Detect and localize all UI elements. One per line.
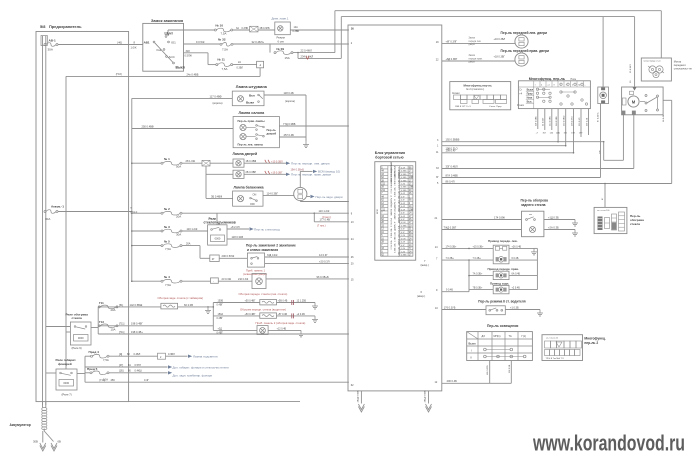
svg-text:0.3ЛБ: 0.3ЛБ [242,27,249,30]
svg-text:3А: 3А [236,27,239,30]
svg-text:№ 1: № 1 [164,157,170,161]
svg-text:ДВЕРЬ 7Г: ДВЕРЬ 7Г [395,220,397,230]
svg-text:+20 0.3Л: +20 0.3Л [319,260,330,264]
svg-text:0.3ВБ: 0.3ВБ [401,187,407,189]
svg-text:№ 2: № 2 [164,207,170,211]
svg-text:Аккум.-1: Аккум.-1 [51,204,64,208]
svg-text:Выс.: Выс. [527,100,533,103]
svg-text:0.5Ж: 0.5Ж [401,238,406,240]
svg-text:и ключи зажигания: и ключи зажигания [247,248,278,252]
svg-text:ДВЕРЬ 7Г: ДВЕРЬ 7Г [395,167,397,177]
svg-text:(коричн): (коричн) [285,99,295,103]
svg-text:0.5Ж 21А: 0.5Ж 21А [398,225,401,234]
svg-text:Замок: Замок [469,38,477,40]
svg-text:6 сек: 6 сек [278,39,285,43]
svg-text:7А 0.3Б+: 7А 0.3Б+ [473,273,483,276]
svg-text:114 0.3БГ: 114 0.3БГ [267,191,279,195]
svg-text:176 0.3УБ: 176 0.3УБ [444,306,456,309]
svg-text:98 0.4Б: 98 0.4Б [663,114,665,122]
svg-text:Г13: Г13 [99,320,104,324]
svg-text:15А: 15А [285,56,290,60]
svg-text:[1Б]: [1Б] [119,370,124,373]
svg-text:1.2Б: 1.2Б [401,235,406,237]
svg-text:Пред 5: Пред 5 [87,367,98,371]
svg-text:передн прав.: передн прав. [469,58,483,60]
svg-text:9 0.5Ж: 9 0.5Ж [196,40,205,44]
svg-text:[Г11]: [Г11] [119,331,125,334]
svg-text:ЗВ1Д 0.5ВБ: ЗВ1Д 0.5ВБ [425,390,427,403]
svg-text:33Г 0.4БЛ: 33Г 0.4БЛ [446,164,458,168]
svg-text:0.4Л: 0.4Л [401,167,406,169]
svg-text:0.3ВБ: 0.3ВБ [401,177,407,179]
svg-text:стекла: стекла [72,316,83,320]
svg-text:86 0.4Л: 86 0.4Л [446,179,455,183]
svg-text:+2 0.4Б: +2 0.4Б [512,287,521,290]
svg-text:Лампа салона: Лампа салона [239,111,266,115]
svg-text:0000: 0000 [215,236,221,240]
svg-text:№ 4: № 4 [164,275,170,279]
svg-text:6В: 6В [58,440,61,444]
svg-text:96 0.3В+Б: 96 0.3В+Б [317,275,329,279]
svg-text:1.2Б: 1.2Б [401,248,406,250]
svg-text:ВСМ: ВСМ [377,209,379,214]
svg-text:+2 0.4Б: +2 0.4Б [297,313,306,316]
svg-text:+16 0.3БЛ: +16 0.3БЛ [494,38,506,41]
svg-text:7,5А: 7,5А [165,247,171,251]
svg-text:250 0.4ВФ: 250 0.4ВФ [142,124,154,128]
svg-text:198 0.4В+: 198 0.4В+ [131,330,143,334]
svg-text:19А 0.3В+Б: 19А 0.3В+Б [291,168,305,171]
svg-text:двери: двери [469,44,476,46]
svg-text:0.3ВБ 12А: 0.3ВБ 12А [394,232,397,242]
svg-text:передн лев.: передн лев. [469,41,482,43]
svg-text:№ 10: № 10 [216,24,224,28]
svg-text:АВ1: АВ1 [144,41,150,45]
svg-text:ЗВ2Д 0.5ВБ: ЗВ2Д 0.5ВБ [358,390,360,403]
svg-text:7,5А: 7,5А [103,358,109,362]
svg-text:эл-т об-ва 12: эл-т об-ва 12 [546,338,559,340]
svg-text:+50 0.4ВГ: +50 0.4ВГ [245,313,257,316]
svg-text:Пер-ль: Пер-ль [267,128,277,132]
svg-text:МН(1): МН(1) [494,335,501,338]
svg-text:(Реле 9): (Реле 9) [72,346,82,350]
svg-text:1М8 8 1УТ 9 +3: 1М8 8 1УТ 9 +3 [455,106,471,108]
svg-text:1Б 0.4ВФ: 1Б 0.4ВФ [246,160,257,163]
svg-text:[46]: [46] [118,40,123,44]
svg-text:50А: 50А [176,165,181,169]
svg-text:OFF: OFF [250,203,255,206]
svg-text:32 0.4БЛ+: 32 0.4БЛ+ [252,40,265,44]
svg-text:Пер-ль стеклопод: Пер-ль стеклопод [254,227,280,231]
svg-text:Приб. панель 2 (обогрев задн.: Приб. панель 2 (обогрев задн. стекла) [256,321,306,325]
svg-text:Лампа подсветки: Лампа подсветки [193,355,218,359]
svg-text:77Д 0.3ВБ: 77Д 0.3ВБ [283,122,296,126]
svg-text:174 0.3Б+: 174 0.3Б+ [446,245,458,248]
svg-text:Привод передн. прав.: Привод передн. прав. [488,267,520,271]
svg-text:20А: 20А [186,243,191,246]
svg-text:31 0.5БГ: 31 0.5БГ [543,117,545,126]
svg-text:198 0.3ТО: 198 0.3ТО [571,116,573,126]
svg-text:30А: 30А [45,217,50,221]
svg-text:118 0.4Б: 118 0.4Б [284,91,294,95]
svg-text:Доп. задн. комбинир. фонари: Доп. задн. комбинир. фонари [173,373,213,377]
svg-text:0.4Л: 0.4Л [401,209,406,211]
svg-text:Низк: Низк [527,96,533,99]
svg-text:(Реле 7): (Реле 7) [62,393,72,397]
svg-text:(Г низ.): (Г низ.) [317,224,326,228]
svg-text:20А: 20А [111,308,116,312]
svg-text:Блок управления: Блок управления [375,151,405,155]
svg-text:+12 0.4Б: +12 0.4Б [277,327,287,330]
svg-text:0.3БЛ: 0.3БЛ [168,353,175,356]
svg-text:459: 459 [111,379,116,382]
svg-text:+18 0.3БГ: +18 0.3БГ [494,56,506,59]
svg-text:+1Д 0.3Б: +1Д 0.3Б [548,215,559,219]
svg-text:www.korandovod.ru: www.korandovod.ru [532,431,685,456]
svg-text:118 0.31В: 118 0.31В [232,235,244,239]
svg-text:мотор передн ст-ля: мотор передн ст-ля [644,61,661,63]
svg-text:24х 0.4ВБ: 24х 0.4ВБ [187,72,199,76]
svg-text:144 0.5ВБ: 144 0.5ВБ [550,116,552,126]
svg-text:+1 0.3Б: +1 0.3Б [510,306,519,309]
svg-text:0.3ВБ 12А: 0.3ВБ 12А [394,187,397,197]
svg-text:[4Г]: [4Г] [119,364,123,367]
svg-text:Пер-ль передн. лев. двери: Пер-ль передн. лев. двери [291,162,330,166]
svg-text:Пер-ль передней прав. двери: Пер-ль передней прав. двери [501,49,550,53]
svg-text:ДЗ: ДЗ [482,335,486,338]
svg-text:+26 0.4Б: +26 0.4Б [512,245,522,248]
svg-text:№ 5: № 5 [164,240,170,244]
svg-text:Сигнал: Сигнал [452,93,460,95]
svg-text:№ 11: № 11 [218,58,226,62]
svg-text:ЗАМОК 14Б: ЗАМОК 14Б [390,162,393,174]
svg-text:ТА: ТА [509,335,512,338]
svg-text:двери: двери [469,62,476,64]
svg-text:142 0.5ВШ: 142 0.5ВШ [130,303,143,307]
svg-text:Стекл. Прер: Стекл. Прер [489,106,502,108]
svg-text:ACC: ACC [169,55,176,59]
svg-text:7,5А: 7,5А [222,47,228,51]
svg-text:+5Г 0.4Б: +5Г 0.4Б [278,313,288,316]
svg-text:0.3ВБ: 0.3ВБ [401,255,407,257]
svg-text:Привод задн.: Привод задн. [490,281,509,285]
svg-text:Лампа дверей: Лампа дверей [233,152,258,156]
svg-text:199 0.3Л: 199 0.3Л [579,117,581,126]
svg-text:+50 0.4ВГ: +50 0.4ВГ [245,299,257,302]
svg-text:5/8: 5/8 [40,24,46,29]
svg-text:1.2Б: 1.2Б [401,183,406,185]
svg-text:(Стекл.): (Стекл.) [322,216,331,219]
svg-text:стеклоподъемников: стеклоподъемников [204,221,236,225]
svg-text:0.4БЛ: 0.4БЛ [134,353,141,356]
svg-text:30В: 30В [33,440,38,444]
svg-text:0.5Ж 21А: 0.5Ж 21А [390,218,393,227]
svg-text:2Б 0.3ВР: 2Б 0.3ВР [246,171,257,174]
svg-text:1.2Б: 1.2Б [401,251,406,253]
svg-text:Выкл: Выкл [246,101,254,105]
svg-text:Лампа багажника: Лампа багажника [234,186,264,190]
svg-text:Выкл: Выкл [469,341,476,345]
svg-text:0.3ВБ 12А: 0.3ВБ 12А [394,243,397,253]
svg-text:Приб. панель 1: Приб. панель 1 [246,268,266,272]
svg-text:Прер: Прер [527,92,534,95]
svg-text:7В 0.3Б+: 7В 0.3Б+ [473,287,483,290]
svg-text:0.4Л: 0.4Л [401,193,406,195]
svg-text:302 0.5Б: 302 0.5Б [509,364,511,373]
svg-text:7,5А: 7,5А [221,32,227,36]
svg-text:0.5ГЛ: 0.5ГЛ [135,364,142,367]
svg-text:0.4Л: 0.4Л [401,206,406,208]
svg-text:Обогрев задн. стекла (с таймер: Обогрев задн. стекла (с таймером) [158,296,204,300]
svg-text:Аккумулятор: Аккумулятор [10,423,31,427]
svg-text:Г(1): Г(1) [522,335,527,338]
svg-text:Замок зажигания: Замок зажигания [151,19,183,23]
svg-text:7,5А: 7,5А [222,67,228,71]
svg-text:0000: 0000 [63,381,69,385]
svg-text:АВ-1: АВ-1 [49,38,56,42]
svg-text:(Г16): (Г16) [116,72,122,76]
svg-text:0.5Ж 21А: 0.5Ж 21А [398,172,401,181]
svg-text:Многофункц пер-ль: Многофункц пер-ль [464,84,493,88]
svg-text:ЗАМОК 14Б: ЗАМОК 14Б [394,208,397,220]
svg-text:ВСМ (вывод 10): ВСМ (вывод 10) [318,170,340,174]
svg-text:12 0.3Г: 12 0.3Г [319,253,328,257]
svg-text:0.3ВБ: 0.3ВБ [293,30,300,33]
svg-text:199 0.4У: 199 0.4У [446,149,457,153]
svg-text:148 0.5ВБ: 148 0.5ВБ [556,116,558,126]
svg-text:22 0.4ЖЛ: 22 0.4ЖЛ [301,49,313,53]
svg-text:Вкл: Вкл [249,93,255,97]
svg-text:35Г 0.4Б: 35Г 0.4Б [586,117,588,126]
svg-text:0.4Г: 0.4Г [144,379,149,382]
svg-text:дверей: дверей [267,131,277,135]
svg-text:[Г14]: [Г14] [100,379,106,382]
svg-text:(освещение двери): (освещение двери) [243,272,267,276]
svg-text:6 0.4Б: 6 0.4Б [512,257,519,260]
svg-text:№ 3: № 3 [164,225,170,229]
svg-text:стеклоочист-ля: стеклоочист-ля [674,67,692,70]
svg-text:Г11: Г11 [99,301,104,305]
svg-text:0.4Л: 0.4Л [401,203,406,205]
svg-text:150Б: 150Б [218,299,224,302]
svg-text:Режим: Режим [277,36,285,40]
svg-text:198 0.4ВГ: 198 0.4ВГ [131,322,143,326]
svg-text:+15 0.3Б+: +15 0.3Б+ [473,245,485,248]
svg-text:+10 0.3ВЛ: +10 0.3ВЛ [271,160,283,163]
svg-text:Пер-ль зажигания 2 зажигание: Пер-ль зажигания 2 зажигание [246,243,296,247]
svg-text:14А: 14А [294,26,299,29]
svg-text:ТЖД 0.3ВГ: ТЖД 0.3ВГ [444,226,457,229]
svg-text:(микр.): (микр.) [421,263,429,267]
svg-text:9 0.4Б: 9 0.4Б [446,289,453,292]
svg-text:0.5ЛЖ: 0.5ЛЖ [185,54,193,57]
svg-text:318: 318 [186,50,191,53]
svg-text:7 0.3Б+: 7 0.3Б+ [446,257,455,260]
svg-text:+8Г 0.3ЛГ: +8Г 0.3ЛГ [446,41,458,44]
svg-text:30А: 30А [48,47,53,51]
svg-text:Выкл: Выкл [176,65,185,69]
svg-text:0.3БЛ: 0.3БЛ [237,67,244,70]
svg-text:Обогрев передн. стекла (лев. с: Обогрев передн. стекла (лев. стекло) [239,292,288,296]
svg-text:35 0.3БЛ: 35 0.3БЛ [630,64,632,73]
svg-text:заднего стекла: заднего стекла [521,203,546,207]
svg-text:+8Д 0.3ВГ: +8Д 0.3ВГ [446,58,458,61]
svg-text:№ 32: № 32 [218,38,226,42]
svg-text:+2Д: +2Д [218,327,223,330]
svg-text:Обогрев передн. стекла (водите: Обогрев передн. стекла (водителя) [240,308,286,312]
svg-text:30А: 30А [176,232,181,236]
svg-text:0.3ВБ: 0.3ВБ [401,180,407,182]
svg-text:ЗАМОК 14Б: ЗАМОК 14Б [390,204,393,216]
svg-text:ON: ON [253,194,257,197]
svg-text:6А 0.4Б: 6А 0.4Б [512,273,521,276]
svg-text:[51]: [51] [119,304,123,307]
svg-text:Пред 4: Пред 4 [89,350,100,354]
svg-text:7 0.4Б+: 7 0.4Б+ [473,257,482,260]
svg-text:+19 0.3ВГ: +19 0.3ВГ [271,171,283,174]
svg-text:0.4Л: 0.4Л [401,242,406,244]
svg-text:стекла: стекла [630,222,640,226]
svg-text:0.3ВБ: 0.3ВБ [401,174,407,176]
svg-text:0.3ВБ 12А: 0.3ВБ 12А [398,247,401,257]
svg-text:87 0.4БЛ+: 87 0.4БЛ+ [598,111,600,122]
svg-text:эл-т ст-ла 100: эл-т ст-ла 100 [597,210,609,212]
svg-text:87А 0.4ВБ: 87А 0.4ВБ [446,173,459,177]
svg-text:0.3ВБ 12А: 0.3ВБ 12А [398,191,401,201]
svg-text:0.5Ж: 0.5Ж [401,222,406,224]
svg-text:174 0.8Ж: 174 0.8Ж [494,215,506,219]
svg-text:Днев. ламп.1: Днев. ламп.1 [272,16,289,20]
svg-text:0.3ВБ: 0.3ВБ [401,190,407,192]
svg-text:7,5А: 7,5А [165,283,171,287]
svg-text:150А: 150А [218,313,224,316]
svg-text:117 0.4ВФ: 117 0.4ВФ [210,94,222,98]
svg-text:3Б 0.4ВФ: 3Б 0.4ВФ [211,194,222,198]
svg-text:М: М [632,100,636,105]
svg-text:Пер-ль прав. лампы: Пер-ль прав. лампы [238,119,266,123]
svg-text:фонарей: фонарей [58,362,72,366]
svg-text:192 0.5ВБВ: 192 0.5ВБВ [446,138,460,142]
svg-text:23 0.3Ж: 23 0.3Ж [222,277,232,281]
svg-text:12 1.25Б: 12 1.25Б [297,299,307,302]
svg-text:4В 0.3ЛБ: 4В 0.3ЛБ [260,27,270,30]
svg-text:Предохранитель: Предохранитель [49,24,82,29]
svg-text:0.3ВБ: 0.3ВБ [401,225,407,227]
svg-text:Пер-ль освещения: Пер-ль освещения [487,324,518,328]
svg-text:ДВЕРЬ 7Г: ДВЕРЬ 7Г [391,194,393,204]
svg-text:(микр.): (микр.) [417,294,425,298]
svg-text:Ст.низ: Ст.низ [517,104,524,107]
svg-text:+5В 0.4Б: +5В 0.4Б [278,299,288,302]
svg-text:Шунт: Шунт [165,32,174,36]
svg-text:200 0.5ЛЖ: 200 0.5ЛЖ [222,254,235,258]
svg-text:+8 2.0Л: +8 2.0Л [231,225,240,229]
svg-text:0.4ВГ: 0.4ВГ [217,317,224,320]
svg-text:Лампа штурмана: Лампа штурмана [236,85,268,89]
svg-text:IG1: IG1 [171,40,176,44]
svg-text:30Г 0.5ВБ: 30Г 0.5ВБ [536,116,538,126]
svg-text:ЗАМОК 14Б: ЗАМОК 14Б [398,234,401,246]
svg-text:Замок: Замок [469,55,477,57]
svg-text:1.0Ж: 1.0Ж [131,46,138,50]
svg-text:14А: 14А [556,132,560,135]
svg-text:ДВЕРЬ 7Г: ДВЕРЬ 7Г [399,213,401,223]
svg-text:2А: 2А [238,61,241,64]
svg-text:400 0.4Б: 400 0.4Б [447,379,458,383]
svg-text:210 0.3Ж: 210 0.3Ж [238,278,249,281]
svg-text:28 1.0Ж: 28 1.0Ж [186,159,196,163]
svg-text:Пер-ль режима 6 ст. водителя: Пер-ль режима 6 ст. водителя [478,299,525,303]
svg-text:192 0.5ВШ: 192 0.5ВШ [564,116,566,126]
svg-text:0.3ВБ 12А: 0.3ВБ 12А [390,228,393,238]
svg-text:110 1.2Ж: 110 1.2Ж [319,209,330,213]
svg-text:Доп. габарит. фонари и стеклоо: Доп. габарит. фонари и стеклоочистители [173,365,230,369]
svg-text:Пер-ль задн. двери: Пер-ль задн. двери [316,195,343,199]
svg-text:пер-ль 2: пер-ль 2 [584,341,598,345]
svg-text:Многофункц. пер-ль: Многофункц. пер-ль [529,77,566,81]
svg-text:№ 2 (стеклооч.): № 2 (стеклооч.) [466,88,484,91]
svg-text:Привод передн. лев.: Привод передн. лев. [488,239,518,243]
svg-text:0.4Л: 0.4Л [401,216,406,218]
svg-text:110 1.2Ж: 110 1.2Ж [187,227,198,231]
svg-text:60 2.0В: 60 2.0В [184,303,193,307]
svg-text:0.4ВГ: 0.4ВГ [217,304,224,307]
svg-text:0.4КШ: 0.4КШ [135,370,143,373]
svg-text:0.5Ж 21А: 0.5Ж 21А [390,240,393,249]
svg-text:(коричн): (коричн) [213,101,223,105]
svg-text:Пер-ль лев. лампы: Пер-ль лев. лампы [238,143,264,147]
svg-text:ЗАМОК 14Б: ЗАМОК 14Б [398,200,401,212]
svg-text:т: т [535,84,536,86]
svg-text:+2А 0.3Б: +2А 0.3Б [548,225,559,229]
svg-text:бортовой сетью: бортовой сетью [375,156,403,160]
svg-text:33Д 0.4Ж: 33Д 0.4Ж [267,254,278,257]
svg-text:[Д]: [Д] [119,353,122,356]
svg-text:Пер-ль передней лев. двери: Пер-ль передней лев. двери [501,31,548,35]
svg-text:0.3ВБ: 0.3ВБ [401,171,407,173]
svg-text:20А: 20А [176,215,181,219]
svg-text:ДВЕРЬ 7Г: ДВЕРЬ 7Г [395,198,397,208]
svg-text:457 0.4Б: 457 0.4Б [284,133,295,137]
svg-text:ТЛ Н В Так МиГ ТО: ТЛ Н В Так МиГ ТО [546,358,565,360]
svg-text:0000: 0000 [78,336,84,340]
svg-text:41Б 0.5ТБ: 41Б 0.5ТБ [487,365,489,375]
svg-text:Выкл: Выкл [527,88,534,91]
svg-text:10А: 10А [111,327,116,331]
svg-text:ЗАМОК 14Б: ЗАМОК 14Б [390,173,393,185]
svg-text:IG2: IG2 [157,48,162,52]
svg-text:[Г11]: [Г11] [119,323,125,326]
